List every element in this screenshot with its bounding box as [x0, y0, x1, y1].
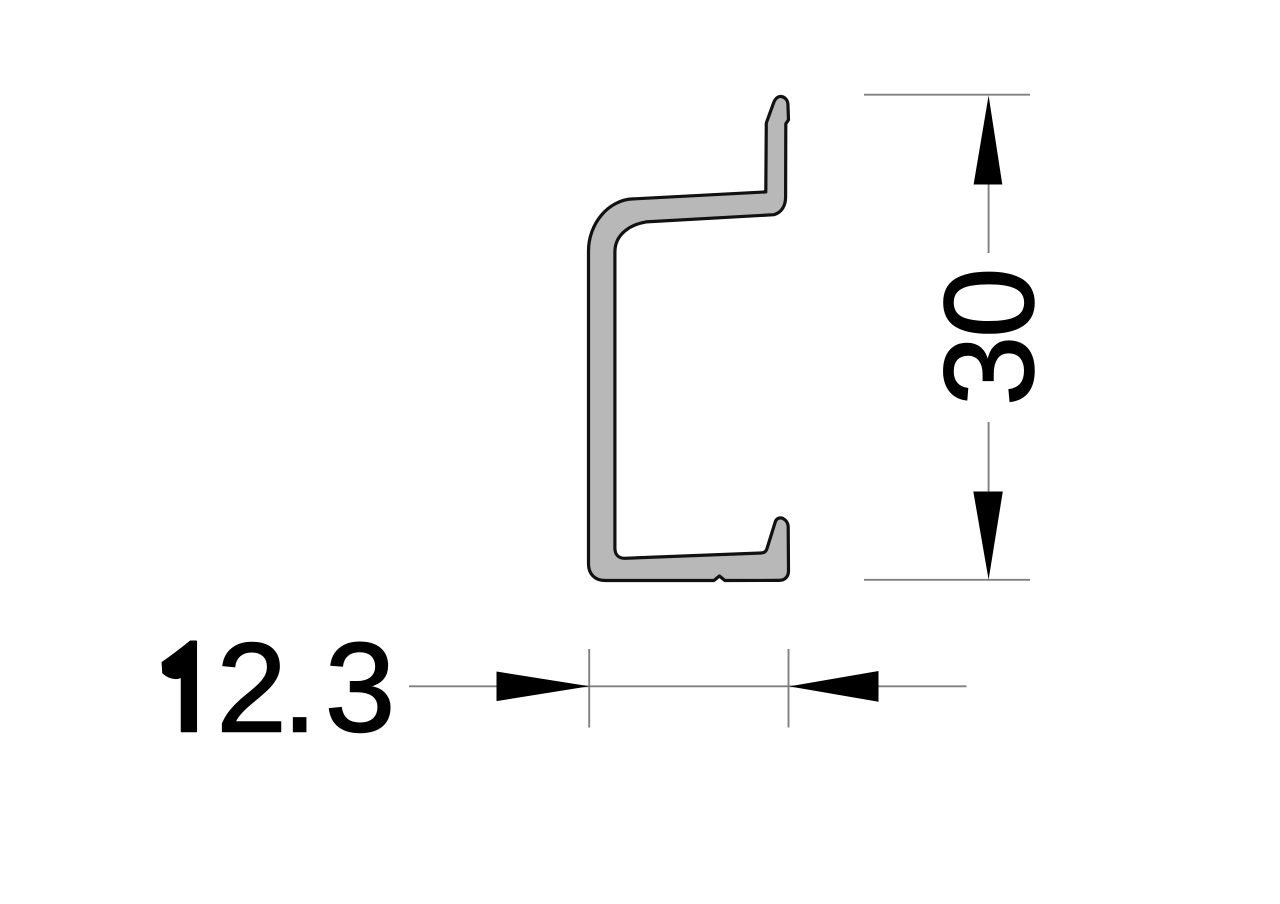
- vertical dimension line lower segment: [988, 422, 990, 492]
- vertical dimension line upper segment: [988, 185, 990, 254]
- horizontal dimension right arrow: [789, 671, 878, 702]
- horizontal dimension text 12.3 : digit 1 drawn as custom path (no foot serif): [162, 641, 196, 731]
- vertical dimension: top extension line: [864, 94, 1030, 96]
- vertical dimension: bottom extension line: [864, 579, 1030, 581]
- svg-text:2.3: 2.3: [216, 617, 395, 759]
- horizontal dimension: left extension line: [588, 649, 590, 728]
- horizontal dimension: right extension line: [788, 649, 790, 728]
- vertical dimension bottom arrow: [973, 492, 1003, 580]
- vertical dimension top arrow: [974, 96, 1003, 185]
- horizontal dimension left arrow: [497, 672, 590, 702]
- profile cross-section body: [589, 96, 789, 580]
- svg-text:30: 30: [918, 270, 1060, 406]
- horizontal dimension line: [409, 685, 967, 687]
